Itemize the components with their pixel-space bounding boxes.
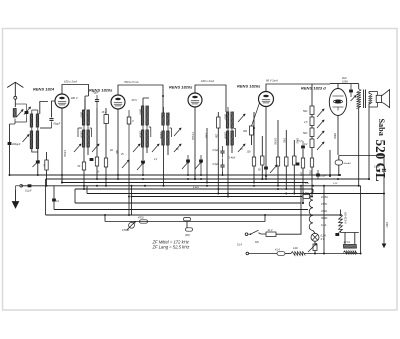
wire choke-lamp [313, 231, 315, 234]
capacitor C05a [220, 146, 224, 158]
junction v1 [61, 182, 63, 184]
wire pot stub [131, 221, 133, 224]
wire T2 top [84, 99, 86, 110]
resistor R-c [293, 156, 296, 165]
junction x324b [323, 253, 325, 255]
wire V4 grid diag [252, 103, 260, 126]
wire x360 drop [360, 186, 362, 254]
wire primary top [358, 84, 360, 89]
resistor R14-2 [291, 252, 305, 256]
junction j0 [61, 174, 63, 176]
svg-text:520 GL: 520 GL [373, 140, 388, 182]
tube V3 RENS1820 [188, 93, 202, 107]
wire V5 top [312, 84, 359, 89]
wire V1 cathode [61, 108, 63, 183]
svg-text:4 V: 4 V [321, 237, 325, 241]
svg-text:15000: 15000 [80, 131, 83, 138]
junction j5 [128, 196, 130, 198]
junction j12 [217, 188, 219, 190]
resistor output primary [357, 89, 361, 109]
coil L2a [30, 114, 33, 128]
svg-text:0,5MΩ: 0,5MΩ [122, 229, 129, 232]
wire antenna lead [14, 99, 16, 107]
junction c5j [187, 174, 189, 176]
svg-text:2kΩ: 2kΩ [299, 171, 301, 176]
svg-text:25k: 25k [215, 133, 218, 139]
coil heater [343, 245, 356, 249]
junction j9 [194, 178, 196, 180]
junction c6j [200, 174, 202, 176]
trimmer arrow lamp [308, 244, 317, 253]
ground [12, 186, 20, 208]
wire T4 wires [164, 107, 172, 137]
wire T2 frame [78, 125, 92, 137]
capacitor C-mr [382, 169, 386, 171]
wire ph1b [276, 186, 301, 234]
capacitor 60uuF [49, 119, 53, 128]
svg-text:HΩ 42,5-6: HΩ 42,5-6 [343, 212, 346, 224]
wire V1 anode link [62, 85, 89, 111]
wire zig bottom [340, 231, 342, 233]
tube V4 RENS1826 [259, 92, 274, 107]
svg-text:4,5kΩ: 4,5kΩ [193, 186, 199, 189]
capacitor CV4 [264, 167, 268, 170]
junction rb [285, 188, 287, 190]
wire bus10 [46, 214, 341, 216]
svg-text:0,35A: 0,35A [321, 195, 328, 199]
capacitor C-a [349, 84, 353, 97]
coil T5d [231, 131, 234, 146]
wire ph1a [259, 233, 267, 234]
capacitor C4 [141, 161, 145, 176]
svg-text:100 u 2mA: 100 u 2mA [64, 80, 77, 84]
trimmer T3 arrow1 [133, 144, 140, 152]
svg-text:0,1: 0,1 [56, 201, 60, 203]
trimmer arrow c3 [122, 160, 129, 168]
wire col330 [329, 149, 331, 151]
junction meterj [338, 174, 340, 176]
svg-text:50: 50 [43, 164, 45, 167]
junction volj [131, 196, 133, 198]
junction j22 [329, 175, 331, 177]
svg-text:100kΩ: 100kΩ [274, 138, 276, 145]
junction c3b [128, 214, 130, 216]
trimmer arrow b1 [317, 109, 324, 117]
wire R2 drop [96, 166, 98, 179]
coil T4b [167, 113, 170, 126]
svg-text:14Ω: 14Ω [293, 247, 298, 250]
wire V4 anode link [266, 84, 312, 92]
junction j23 [337, 178, 339, 180]
meter 50mA [335, 160, 351, 165]
wire L2 top [40, 102, 48, 115]
coil T2b [87, 110, 90, 126]
resistor R100k [252, 157, 255, 166]
wire L2 links [32, 110, 38, 131]
svg-text:RENS 1823 d: RENS 1823 d [301, 86, 326, 91]
trimmer arrow c6 [195, 161, 202, 169]
junction spk [368, 178, 370, 180]
svg-text:5000: 5000 [224, 114, 227, 120]
wire bus1 [10, 174, 341, 176]
svg-text:4V 1A: 4V 1A [344, 241, 351, 244]
capacitor C-d [296, 163, 300, 166]
wire oval3 stubs [187, 221, 189, 228]
svg-text:R504: R504 [333, 133, 336, 139]
capacitor 70uF [95, 95, 99, 108]
junction rc [293, 193, 295, 195]
trimmer arrow c4 [137, 162, 144, 170]
svg-text:51,4: 51,4 [237, 244, 242, 247]
resistor Rb3 [310, 128, 314, 137]
trimmer T4 arrow2 [174, 128, 181, 136]
wire T5 bottom [228, 145, 232, 160]
junction j2 [96, 185, 98, 187]
junction j10 [200, 178, 202, 180]
junction re [311, 196, 313, 198]
wire col62 [61, 176, 63, 183]
coil T3a [141, 106, 144, 126]
label choke vals [321, 195, 328, 227]
capacitor 400pF [8, 142, 12, 145]
resistor oval2 [184, 218, 191, 221]
coil T2a [82, 110, 85, 126]
capacitor 01uF-in [28, 184, 32, 187]
junction v3 [194, 178, 196, 180]
wire bus2 [46, 178, 369, 180]
svg-text:41,4: 41,4 [275, 249, 280, 252]
coil secondary [369, 94, 372, 105]
svg-text:14: 14 [240, 148, 243, 151]
coil T3b [146, 106, 149, 126]
resistor R-ps [313, 244, 317, 251]
wire bus5 [75, 188, 313, 190]
svg-text:700 to 5 mA: 700 to 5 mA [124, 80, 139, 84]
wire heater risers [345, 233, 355, 245]
junction j30 [61, 182, 63, 184]
svg-text:Saba: Saba [377, 119, 386, 136]
tube V2 RENS1820 [111, 95, 125, 109]
wire bias drops [311, 115, 313, 159]
wire ph2a [249, 253, 277, 255]
junction j17 [277, 188, 279, 190]
svg-text:15000: 15000 [139, 131, 142, 138]
capacitor ant trimmer [25, 104, 29, 118]
junction j29 [131, 185, 133, 187]
svg-text:5,5mΩ: 5,5mΩ [63, 150, 65, 157]
svg-text:300: 300 [243, 130, 248, 133]
junction j16 [265, 178, 267, 180]
coil L2c [30, 131, 33, 149]
svg-text:15000: 15000 [224, 132, 227, 139]
wire L2 drop [32, 149, 38, 176]
wire R-a wires [277, 120, 279, 186]
wire R25k wires [217, 112, 219, 194]
junction c05 [222, 174, 224, 176]
resistor R300 [250, 126, 254, 135]
wire meter wires [330, 150, 339, 175]
wire speaker return [368, 107, 370, 179]
junction r2 [96, 178, 98, 180]
resistor heater zig [344, 251, 358, 254]
svg-text:RENS 1826s: RENS 1826s [237, 84, 261, 89]
label 2k05W [341, 77, 348, 84]
resistor R-b [285, 157, 288, 166]
resistor R3 [104, 158, 107, 167]
svg-text:0,1F: 0,1F [305, 183, 310, 185]
resistor R-a [276, 157, 279, 166]
junction j21 [312, 185, 314, 187]
wire R50k wires [261, 136, 263, 179]
wire R-b wires [285, 130, 287, 189]
wire V3 cathode [194, 107, 196, 179]
wire ps bottom [314, 251, 316, 254]
wire V2 anode link [118, 85, 163, 113]
junction t2 [83, 188, 85, 190]
wire T5 wires [228, 107, 236, 137]
junction t3 [142, 174, 144, 176]
wire R300 drop [252, 112, 255, 145]
coil T4c [162, 131, 165, 146]
junction j28 [264, 214, 266, 216]
wire T3 mid [143, 125, 151, 137]
svg-text:88 V 2mA: 88 V 2mA [266, 79, 278, 83]
wire bus7 link [311, 196, 314, 198]
svg-text:5000: 5000 [80, 112, 83, 118]
svg-text:4Ω: 4Ω [110, 149, 113, 152]
trimmer arrow out [351, 96, 357, 102]
potentiometer P1 [127, 221, 135, 229]
wire bus3 [62, 182, 308, 184]
terminal ph2 [246, 252, 249, 255]
junction d207 [206, 182, 208, 184]
svg-text:0,1F: 0,1F [333, 183, 338, 185]
junction j8 [187, 178, 189, 180]
junction j7 [144, 185, 146, 187]
wire T2 bottom [84, 147, 88, 162]
wire col266 [265, 176, 267, 179]
wire bias top [311, 84, 313, 106]
junction j14 [253, 185, 255, 187]
svg-text:5kΩ: 5kΩ [303, 110, 308, 113]
svg-text:25: 25 [120, 154, 124, 156]
junction j20 [302, 202, 304, 204]
lamp LP1 [311, 233, 319, 241]
capacitor C01r [316, 170, 320, 179]
wire T3 bottom [143, 147, 147, 160]
tube V5 RENS1823 [329, 89, 346, 116]
wire V5 cathode [337, 116, 339, 156]
wire V3 anode link [195, 85, 226, 112]
terminal E [20, 185, 23, 188]
svg-text:RENS 1824: RENS 1824 [33, 87, 55, 92]
svg-text:3kΩ: 3kΩ [115, 150, 117, 154]
svg-text:(Ph): (Ph) [185, 233, 190, 237]
svg-text:0,5W: 0,5W [342, 81, 348, 84]
trimmer T5 arrow2 [238, 114, 245, 122]
capacitor ps-c [335, 233, 339, 236]
svg-text:ZF Lang = 52,5 kHz: ZF Lang = 52,5 kHz [152, 244, 191, 249]
wire volume row [105, 215, 265, 222]
svg-text:15000: 15000 [159, 132, 162, 139]
inductor choke [309, 193, 313, 231]
resistor Rb2 [310, 117, 314, 126]
svg-text:RENS 1820s: RENS 1820s [169, 85, 193, 90]
junction r100 [253, 182, 255, 184]
junction v2 [117, 174, 119, 176]
junction x360 [360, 253, 362, 255]
junction j25 [339, 174, 341, 176]
junction j26 [368, 178, 370, 180]
svg-text:100: 100 [247, 151, 252, 154]
junction a2 [9, 174, 11, 176]
svg-text:3: 3 [132, 119, 134, 123]
wire C-mr drop [383, 172, 385, 194]
junction ps2 [314, 253, 316, 255]
svg-text:7,5 mΩ: 7,5 mΩ [191, 132, 194, 140]
wire col131b [131, 186, 133, 197]
wire 97 drop [96, 108, 98, 157]
trimmer arrow c5 [182, 161, 189, 169]
junction zigj [340, 214, 342, 216]
speaker [376, 90, 389, 108]
coil T2c [82, 130, 85, 148]
wire ph2b [285, 253, 291, 255]
svg-text:28 V: 28 V [131, 98, 138, 102]
resistor R-f [301, 158, 304, 168]
trimmer L1 arrow [17, 110, 24, 118]
wire 222 drop [222, 172, 224, 175]
resistor oval1 [140, 220, 148, 223]
wire col118b [117, 175, 119, 179]
transformer core [364, 90, 366, 109]
svg-text:1,5kΩ: 1,5kΩ [303, 193, 309, 195]
wire zig top [340, 210, 342, 215]
coil T4a [162, 113, 165, 126]
wire R100k wires [253, 128, 255, 183]
svg-text:2MΩ: 2MΩ [308, 169, 310, 175]
junction j4 [117, 178, 119, 180]
trimmer arrow b3 [317, 131, 324, 139]
svg-text:2,5: 2,5 [303, 121, 308, 124]
svg-text:41,4: 41,4 [268, 229, 273, 232]
wire ant frame [10, 104, 27, 124]
wire midright h [339, 156, 384, 169]
resistor R50k-left [45, 160, 48, 170]
trimmer ant arrow2 [24, 107, 31, 115]
svg-text:100 u 2mA: 100 u 2mA [201, 79, 214, 83]
capacitor 01uF-2 [52, 199, 60, 204]
svg-text:100 V: 100 V [71, 96, 78, 100]
wire secondary loop [369, 92, 378, 108]
svg-text:(1-4)At: (1-4)At [228, 157, 236, 160]
resistor bus7 oval [303, 195, 311, 199]
wire R1 drop [83, 170, 85, 189]
svg-text:50mAΩ: 50mAΩ [344, 162, 352, 165]
svg-text:150V: 150V [385, 222, 388, 228]
junction x324a [323, 185, 325, 187]
wire 129 drop [128, 160, 130, 215]
wire R-c wires [293, 140, 295, 194]
coil T3c [141, 130, 144, 148]
junction a3 [46, 185, 48, 187]
wire 150V line [382, 194, 386, 248]
wire R-e drop [311, 167, 313, 197]
wire bus8 [75, 202, 301, 204]
resistor R18-2 [104, 115, 108, 124]
resistor R41 [266, 232, 276, 236]
svg-text:50: 50 [258, 170, 261, 172]
junction j6 [142, 178, 144, 180]
svg-text:0,1μF: 0,1μF [320, 176, 326, 178]
coil L2b [36, 114, 39, 128]
junction r25 [217, 193, 219, 195]
junction j15 [261, 178, 263, 180]
resistor Rb4 [310, 139, 314, 148]
coil L2d [36, 131, 39, 149]
svg-text:50: 50 [78, 165, 81, 168]
svg-text:470Ω: 470Ω [138, 217, 144, 220]
coil T5a [226, 112, 229, 129]
wire col195 [194, 175, 196, 179]
wire x324 drop [323, 186, 325, 254]
coil T5b [231, 112, 234, 129]
junction j3 [105, 178, 107, 180]
svg-text:60μμF: 60μμF [54, 123, 61, 126]
junction m330 [329, 174, 331, 176]
wire grid link [40, 127, 52, 129]
tube V1 RENS1824 [55, 94, 69, 108]
trimmer arrow b2 [317, 120, 324, 128]
junction r3 [105, 185, 107, 187]
junction j31 [253, 127, 255, 129]
trimmer T2 arrow2 [92, 144, 99, 152]
junction j32 [162, 95, 164, 97]
svg-text:S/N: S/N [255, 242, 259, 244]
wire V4 cathode [265, 107, 267, 177]
wire bus7 [131, 196, 302, 198]
wire left-bend3 [74, 189, 76, 203]
junction t4 [163, 185, 165, 187]
svg-text:0,5μF: 0,5μF [213, 163, 220, 166]
junction v4 [265, 175, 267, 177]
wire R3 drop [105, 167, 107, 186]
coil L1 [13, 108, 16, 117]
wire R-f wires [302, 149, 304, 203]
resistor R1 [82, 162, 85, 170]
svg-text:5000: 5000 [139, 109, 142, 115]
wire 228 drop [227, 160, 229, 197]
resistor Rb1 [310, 106, 314, 115]
coil T2d [87, 130, 90, 148]
svg-text:0,2A: 0,2A [321, 234, 327, 238]
trimmer arrow b4 [317, 142, 324, 150]
junction a1 [37, 174, 39, 176]
resistor R25k [217, 117, 220, 128]
svg-text:1MΩ: 1MΩ [283, 138, 285, 143]
wire T4 bottom [164, 145, 169, 186]
resistor oval-ph [277, 252, 285, 256]
junction j1 [83, 185, 85, 187]
capacitor L2 pad [33, 161, 40, 168]
wire ant gnd drop [9, 124, 11, 175]
wire primary bottom [358, 108, 360, 186]
wire V2 cathode [117, 109, 119, 176]
svg-text:2,2: 2,2 [153, 159, 158, 161]
coil T3d [146, 130, 149, 148]
junction j24 [338, 174, 340, 176]
wire bus4 [21, 185, 361, 187]
